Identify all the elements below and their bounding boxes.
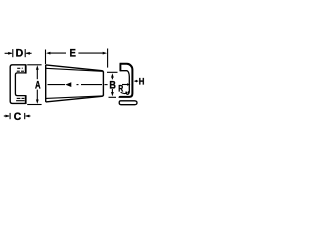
dimension E: left extension line bbox=[45, 50, 47, 65]
dimension B: bottom extension tick bbox=[109, 96, 117, 98]
right view: top tab bottom edge + inner wall bbox=[120, 71, 130, 89]
dimension B: down arrowhead bbox=[111, 92, 114, 96]
svg-text:B: B bbox=[109, 79, 116, 91]
cone: bottom inner slant bbox=[46, 96, 103, 99]
dimension D: extension ticks bbox=[13, 49, 25, 57]
svg-text:A: A bbox=[35, 80, 41, 92]
dimension A: dim line lower segment bbox=[36, 90, 38, 102]
dimension H: left-pointing arrow (tail right) bbox=[136, 80, 138, 82]
left view: C-channel cross-section outline bbox=[10, 65, 26, 104]
dimension E: right arrowhead bbox=[103, 52, 107, 55]
dimension A: top extension line bbox=[27, 64, 41, 66]
dimension C: right arrowhead bbox=[25, 115, 29, 118]
left view: inner boundary (flange undersides + inner wall) bbox=[15, 73, 25, 96]
dimension B: dim line lower segment bbox=[111, 89, 113, 94]
left view: bottom flange hatching bbox=[16, 98, 25, 100]
dimension C: left arrowhead bbox=[6, 115, 10, 118]
dimension B: top extension tick bbox=[107, 71, 118, 73]
right view: curl center dot bbox=[128, 91, 130, 93]
dimension E: left arrowhead bbox=[46, 52, 50, 55]
dimension A: dim line upper segment bbox=[36, 68, 38, 80]
dimension H: right-pointing arrow (tail left) bbox=[122, 84, 128, 86]
centerline: dot dash bbox=[77, 84, 79, 86]
svg-text:D: D bbox=[16, 48, 24, 60]
cone: left face bbox=[45, 65, 47, 102]
centerline: right dash bbox=[105, 84, 108, 86]
dimension E: dim line left segment bbox=[49, 52, 66, 54]
dimension C: extension ticks bbox=[10, 113, 25, 119]
svg-text:E: E bbox=[70, 48, 76, 60]
dimension C: dim line arrows bbox=[4, 115, 31, 117]
dimension E: dim line right segment bbox=[78, 52, 104, 54]
svg-text:C: C bbox=[14, 111, 21, 123]
centerline: long dash bbox=[81, 84, 102, 86]
dimension E: right extension line bbox=[107, 49, 109, 68]
cone: bottom outer slant bbox=[46, 95, 104, 102]
right view: inner curl bbox=[126, 89, 129, 94]
dimension A: bottom extension line bbox=[27, 104, 41, 106]
right view: top tab left edge (thick) bbox=[119, 63, 121, 71]
cone: top inner slant bbox=[46, 68, 103, 71]
centerline: arrowhead pointing left bbox=[65, 82, 71, 87]
right view: bottom bar bbox=[119, 101, 137, 105]
right view: top tab top edge bbox=[120, 64, 133, 98]
centerline: left dash bbox=[48, 84, 66, 86]
svg-text:H: H bbox=[139, 75, 145, 86]
dimension A: down arrowhead bbox=[36, 100, 39, 104]
dimension D: dim line arrows bbox=[5, 52, 32, 54]
left view: top flange hatching bbox=[17, 68, 24, 71]
radius callout R: leader line bbox=[121, 92, 127, 93]
dimension A: up arrowhead bbox=[36, 65, 39, 69]
dimension D: left arrowhead bbox=[8, 52, 12, 55]
cone: right face bbox=[102, 72, 104, 96]
left view: bottom flange right edge (thick) bbox=[25, 95, 27, 104]
dimension D: right arrowhead bbox=[25, 52, 29, 55]
left view: top flange right edge (thick) bbox=[25, 64, 27, 73]
cone: top outer slant bbox=[46, 65, 104, 73]
dimension B: dim line upper segment bbox=[111, 76, 113, 80]
dimension B: up arrowhead bbox=[111, 73, 114, 77]
